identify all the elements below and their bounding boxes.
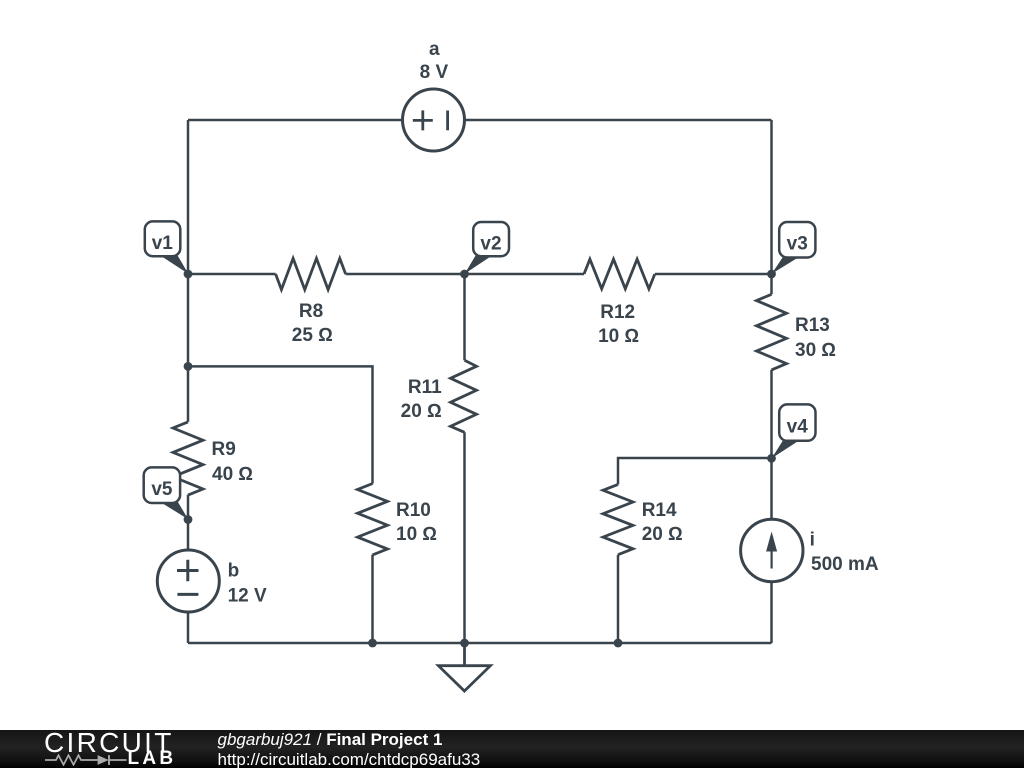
svg-text:25 Ω: 25 Ω — [292, 325, 333, 346]
voltage source a plus sign — [413, 110, 433, 130]
voltage source a minus bar — [446, 111, 449, 131]
svg-text:40 Ω: 40 Ω — [212, 464, 253, 485]
svg-text:R8: R8 — [299, 301, 323, 322]
resistor R12 (horizontal, 10 ohm) — [584, 259, 655, 289]
wire left rail: top corner to R9 — [187, 120, 190, 422]
node label v2 tail — [465, 255, 493, 274]
node junction dot R14 bottom — [614, 639, 623, 648]
wire right rail: R13 to v4 to current source — [770, 370, 773, 520]
node label v3 tail — [772, 256, 801, 274]
svg-text:R13: R13 — [795, 315, 830, 336]
node junction dot v4 — [767, 454, 776, 463]
svg-text:b: b — [228, 561, 240, 582]
node label v4 box — [779, 404, 815, 440]
wire branch v4 to R14 top — [618, 458, 772, 484]
svg-text:500 mA: 500 mA — [811, 554, 879, 575]
node label v1 tail — [160, 255, 189, 274]
wire middle rail y=274 v1 to R8 — [188, 273, 276, 276]
svg-text:R9: R9 — [212, 439, 236, 460]
voltage source b minus sign — [177, 593, 198, 596]
current source i arrow shaft — [770, 547, 772, 569]
svg-text:R14: R14 — [642, 500, 677, 521]
url text — [218, 750, 481, 768]
node label v5 box — [144, 467, 180, 503]
svg-text:8 V: 8 V — [420, 62, 449, 83]
node junction dot ground — [460, 639, 469, 648]
wire top rail left of source a — [188, 119, 403, 122]
node label v4 tail — [772, 440, 801, 458]
resistor R11 (vertical, 20 ohm) — [451, 360, 477, 432]
svg-text:10 Ω: 10 Ω — [598, 326, 639, 347]
wire R10 bottom to bottom rail — [371, 555, 374, 643]
svg-text:R10: R10 — [396, 500, 431, 521]
wire branch from left rail to R10 top — [188, 366, 373, 483]
node junction dot v5 — [184, 515, 193, 524]
voltage source b plus sign — [177, 560, 199, 582]
svg-text:v4: v4 — [787, 416, 809, 437]
svg-text:30 Ω: 30 Ω — [795, 340, 836, 361]
wire right rail: top corner to v3 and R13 — [770, 120, 773, 294]
voltage source a (8 V) circle — [403, 89, 465, 151]
svg-text:12 V: 12 V — [228, 586, 267, 607]
wire left rail: R9 to source b — [187, 495, 190, 550]
svg-text:v1: v1 — [152, 233, 174, 254]
svg-text:R12: R12 — [600, 302, 635, 323]
svg-text:a: a — [429, 39, 440, 60]
resistor R8 (horizontal, 25 ohm) — [276, 258, 346, 289]
node junction dot R10 bottom — [368, 639, 377, 648]
wire middle rail R12 to v3 — [655, 273, 772, 276]
wire bottom rail — [188, 642, 772, 645]
svg-text:v3: v3 — [787, 233, 808, 254]
svg-text:v2: v2 — [480, 233, 501, 254]
svg-text:20 Ω: 20 Ω — [642, 524, 683, 545]
resistor R14 (vertical, 20 ohm) — [603, 484, 633, 554]
svg-text:R11: R11 — [408, 377, 442, 398]
CircuitLab logo wordmark CIRCUIT — [44, 727, 174, 758]
node label v1 box — [145, 221, 181, 256]
wire middle rail R8 to v2 — [346, 273, 465, 276]
svg-text:v5: v5 — [151, 479, 173, 500]
svg-text:10 Ω: 10 Ω — [396, 524, 437, 545]
footer bar — [0, 730, 1024, 768]
wire R14 bottom to bottom rail — [617, 555, 620, 643]
node label v3 box — [779, 222, 815, 258]
wire R11 bottom to bottom rail — [463, 432, 466, 643]
resistor R13 (vertical, 30 ohm) — [757, 294, 787, 370]
voltage source b (12 V) circle — [157, 550, 219, 612]
node junction dot v3 — [767, 270, 776, 279]
title text — [218, 730, 443, 749]
resistor R10 (vertical, 10 ohm) — [358, 484, 388, 555]
wire middle rail v2 to R12 — [465, 273, 585, 276]
node junction dot left branch — [184, 362, 193, 371]
ground symbol — [438, 643, 490, 691]
wire v2 down to R11 — [463, 274, 466, 360]
CircuitLab logo wordmark LAB — [128, 748, 177, 768]
current source i arrow head — [766, 532, 777, 552]
CircuitLab logo resistor-diode squiggle — [44, 754, 129, 766]
current source i (500 mA) circle — [741, 519, 803, 581]
node label v5 tail — [160, 502, 188, 519]
svg-text:20 Ω: 20 Ω — [401, 401, 442, 422]
node label v2 box — [473, 222, 509, 256]
wire left rail: source b to bottom rail — [187, 612, 190, 643]
wire right rail: current source to bottom rail — [770, 582, 773, 643]
node junction dot v2 — [460, 270, 469, 279]
wire top rail right of source a — [464, 119, 771, 122]
svg-text:i: i — [810, 530, 815, 551]
resistor R9 (vertical, 40 ohm) — [173, 422, 203, 495]
node junction dot v1 — [184, 270, 193, 279]
